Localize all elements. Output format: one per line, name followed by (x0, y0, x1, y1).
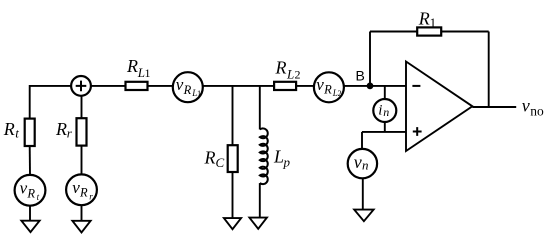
svg-text:v: v (176, 75, 184, 94)
svg-text:v: v (316, 75, 324, 94)
svg-text:p: p (283, 155, 291, 170)
resistor Rt (25, 119, 35, 146)
ground under vRt (21, 221, 39, 232)
svg-text:r: r (67, 126, 73, 141)
wire output (472, 106, 516, 108)
resistor RL2 (274, 82, 296, 90)
ground under vRr (72, 221, 90, 233)
wire summer to RL1 (91, 85, 126, 87)
svg-text:L: L (286, 67, 294, 82)
svg-text:R: R (183, 83, 192, 97)
source vRt (15, 175, 46, 206)
wire vn to ground (362, 178, 364, 209)
resistor RC (228, 145, 238, 172)
wire feedback top right (441, 31, 489, 33)
svg-text:2: 2 (338, 88, 342, 98)
svg-text:R: R (26, 186, 35, 200)
svg-text:t: t (37, 192, 40, 202)
svg-text:r: r (89, 191, 93, 201)
wire feedback right vertical down to output (488, 32, 490, 108)
resistor R1 (417, 27, 441, 35)
svg-text:1: 1 (430, 15, 437, 30)
svg-text:i: i (378, 103, 382, 119)
svg-text:L: L (273, 147, 284, 167)
op-amp U1 triangle (406, 62, 472, 152)
ground under RC (224, 218, 241, 229)
wire RL2 to vRL2 (296, 85, 314, 87)
svg-text:v: v (20, 179, 28, 198)
wire branch2: summer down to Rr (81, 96, 83, 119)
source vRL1 (173, 72, 203, 102)
svg-text:1: 1 (145, 66, 151, 80)
wire RL1 to vRL1 (148, 85, 173, 87)
wire tap down to RC (232, 86, 234, 145)
svg-text:v: v (522, 95, 530, 115)
wire feedback top left (370, 31, 417, 33)
svg-text:R: R (323, 83, 332, 97)
wire vRr to ground (81, 205, 83, 221)
svg-text:B: B (356, 68, 365, 84)
svg-text:R: R (55, 119, 67, 139)
svg-text:n: n (362, 158, 369, 173)
ground under vn (354, 210, 373, 222)
op-amp minus symbol (412, 85, 420, 87)
svg-text:R: R (3, 119, 15, 139)
wire tap down to Lp (259, 86, 261, 130)
node B junction dot (367, 83, 374, 90)
svg-text:R: R (79, 186, 88, 200)
wire vRL1 to RL2 (with taps) (203, 85, 274, 87)
svg-text:R: R (275, 58, 287, 78)
ground under Lp (249, 218, 267, 229)
svg-text:n: n (383, 105, 389, 119)
summer node (plus circle) (71, 76, 91, 96)
wire Lp to ground (259, 183, 261, 218)
source vRL2 (314, 72, 344, 102)
wire Rt to vRt (29, 146, 31, 175)
svg-text:v: v (354, 152, 362, 172)
wire plus input horizontal (362, 131, 406, 133)
wire branch1 top: up from Rt and right to summer (30, 86, 71, 119)
svg-text:R: R (418, 8, 430, 28)
svg-text:v: v (72, 178, 80, 197)
source vn (348, 149, 377, 178)
wire vRt to ground (29, 206, 31, 221)
svg-text:R: R (204, 148, 216, 168)
wire vRL2 to op-amp minus input (344, 85, 407, 87)
resistor RL1 (126, 82, 148, 90)
wire Rr to vRr (81, 146, 83, 175)
op-amp plus symbol (413, 127, 422, 136)
svg-text:2: 2 (295, 68, 301, 82)
wire plus corner down to vn (361, 132, 363, 149)
svg-text:1: 1 (197, 88, 201, 98)
svg-text:C: C (216, 155, 225, 170)
wire RC to ground (232, 172, 234, 218)
current source in (373, 99, 396, 122)
svg-text:t: t (15, 126, 19, 141)
source vRr (66, 174, 97, 205)
svg-text:R: R (126, 56, 138, 76)
inductor Lp (260, 128, 268, 184)
wire in tap down to in circle (384, 86, 386, 99)
wire feedback left vertical (node B up) (369, 32, 371, 86)
resistor Rr (77, 118, 87, 145)
svg-text:no: no (530, 104, 544, 119)
wire in circle to plus wire (384, 122, 386, 132)
